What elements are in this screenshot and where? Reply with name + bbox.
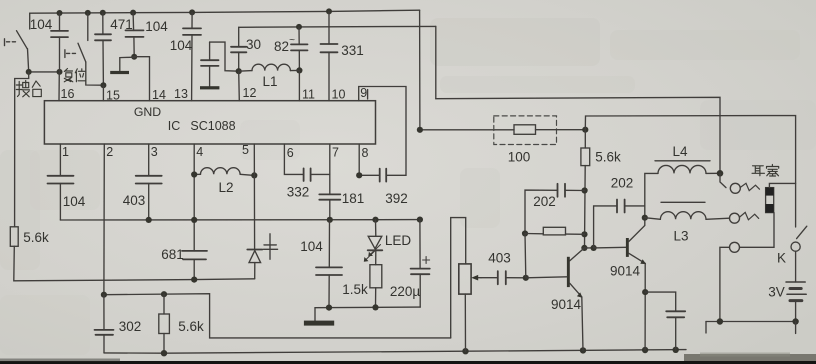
- svg-text:5.6k: 5.6k: [178, 319, 204, 334]
- capacitor C9 392 (pin8 node to pin9 loop): [380, 169, 387, 182]
- svg-text:181: 181: [342, 191, 365, 206]
- node: pin 11 junction: [296, 67, 302, 73]
- battery B1 3V: [786, 281, 805, 283]
- wire: x525 vertical to C18 node: [524, 234, 527, 278]
- horizontal bus under IC: [60, 219, 420, 221]
- svg-text:L4: L4: [672, 144, 688, 159]
- svg-text:15: 15: [106, 89, 120, 103]
- capacitor C2 471 (top rail to pin15): [102, 13, 104, 35]
- wire: pin 7 lead: [329, 144, 331, 194]
- switch S1 fixed contact with dashes: [4, 39, 6, 46]
- pin 9 label bracket: [367, 90, 369, 100]
- ground line end stubs: [705, 322, 707, 334]
- svg-text:331: 331: [341, 43, 364, 58]
- svg-text:9014: 9014: [551, 297, 582, 312]
- top supply rail: [30, 10, 420, 13]
- wire: R2 bottom to varactor rail (line A): [14, 246, 255, 280]
- resistor R5 5.6k (R4 node to Q1 collector): [584, 130, 586, 148]
- Q2 base wire: [594, 246, 626, 249]
- hanzi 耳 (er): [752, 166, 765, 176]
- capacitor C17 302 (pin2 node to bottom rail): [103, 295, 105, 330]
- svg-text:L2: L2: [218, 180, 233, 195]
- battery ground line: [706, 321, 798, 323]
- svg-text:403: 403: [488, 251, 511, 266]
- Q2 collector: [629, 218, 645, 242]
- wire: R4 node up and right to plug line: [585, 116, 795, 228]
- capacitor C7 82 (tank top to pin11 node): [298, 27, 300, 45]
- svg-text:5.6k: 5.6k: [23, 230, 49, 245]
- svg-text:202: 202: [611, 176, 634, 191]
- svg-text:7: 7: [332, 146, 339, 160]
- capacitor C18 403 (wiper to Q1 base): [481, 277, 498, 279]
- capacitor C12 332 (pin6 to pin7): [304, 168, 311, 181]
- transistor Q1 9014 base bar: [567, 257, 570, 287]
- wire: C5 top jog to pin12 node: [210, 42, 239, 71]
- svg-text:1.5k: 1.5k: [342, 282, 368, 297]
- svg-text:12: 12: [243, 86, 257, 100]
- wire: pin 15 lead: [102, 85, 104, 101]
- wire: K to battery: [795, 251, 797, 282]
- switch S2 bottom lead: [86, 62, 104, 85]
- wire: L4 feed from Q2 collector node: [645, 173, 658, 217]
- resistor R4 100: [514, 125, 536, 135]
- capacitor C6 30 (tank top to pin12 node): [238, 27, 240, 47]
- wire: battery minus to ground line: [795, 301, 797, 322]
- varactor side plate mark: [269, 234, 271, 259]
- svg-text:GND: GND: [134, 105, 161, 119]
- capacitor C21 (Q2 emitter bypass): [645, 292, 676, 311]
- capacitor C13 681 (pin4 line to varactor rail): [182, 251, 207, 260]
- capacitor C11 403 (pin3 to bus): [136, 176, 162, 184]
- svg-text:302: 302: [119, 319, 142, 334]
- LED arrows: [365, 245, 381, 261]
- wire: S1 node down-left to left rail: [15, 72, 29, 227]
- svg-text:K: K: [777, 251, 786, 266]
- capacitor C10 104 (pin1 to bus): [48, 176, 74, 184]
- L4 core bar: [655, 160, 710, 162]
- pin 9 top loop wire: [359, 87, 406, 176]
- wire: Q1 collector stub to Q2 base node: [584, 247, 593, 249]
- wire: pin 16 lead: [58, 72, 60, 101]
- svg-text:202: 202: [533, 194, 556, 209]
- wire: line B pin2 node to y338 line: [104, 294, 451, 338]
- svg-text:332: 332: [287, 185, 310, 200]
- jack contact 2 spring: [740, 212, 759, 219]
- capacitor C4 104 (top rail to pin13): [191, 12, 193, 28]
- varactor diode D1: [247, 249, 262, 251]
- wire: pin 5 lead down to varactor: [253, 144, 255, 249]
- resistor R6 (base bias): [525, 233, 543, 235]
- bottom ground rail: [104, 350, 686, 354]
- wire: AGC line from x419 node to dashed box: [420, 129, 514, 131]
- node A: S1 / pin16 junction wire: [29, 71, 60, 73]
- capacitor C14 181 (pin7 inline): [319, 194, 340, 199]
- wire: pin 11 lead: [298, 70, 300, 100]
- hanzi 位 (wei): [75, 69, 85, 82]
- wire: contact 3 to ground line: [720, 247, 730, 321]
- Q1 emitter with arrow: [570, 283, 582, 297]
- Q2 emitter with arrow: [629, 253, 645, 263]
- wire: pin 8 lead: [358, 144, 360, 175]
- capacitor C1 104 (top rail to pin16 node): [59, 13, 61, 31]
- svg-text:5.6k: 5.6k: [595, 150, 621, 165]
- inductor L4: [658, 165, 706, 173]
- svg-text:L3: L3: [673, 229, 688, 244]
- switch S2 (reset) top lead: [87, 13, 89, 41]
- svg-text:8: 8: [362, 146, 369, 160]
- switch S1 bottom lead: [28, 49, 29, 72]
- pot wiper arrow: [475, 277, 481, 279]
- inductor L1 (pin12 node to pin11 node): [239, 70, 252, 73]
- svg-text:1: 1: [62, 145, 69, 159]
- bottom dark smudge: [684, 354, 816, 362]
- switch S1 (search) top lead: [29, 13, 31, 29]
- wire: C3 node to pin 14: [134, 57, 149, 101]
- svg-text:13: 13: [174, 87, 188, 101]
- capacitor C16 220u electrolytic: [419, 220, 421, 269]
- svg-text:3: 3: [151, 145, 158, 159]
- svg-text:9014: 9014: [610, 264, 641, 279]
- wire: plug tip stub to switch line: [769, 183, 795, 187]
- inductor L2 (pin4 to pin5): [201, 168, 241, 175]
- node: pin15 junction: [100, 82, 106, 88]
- svg-text:5: 5: [242, 143, 249, 157]
- svg-text:681: 681: [161, 247, 184, 262]
- resistor R1 1.5k: [370, 265, 382, 288]
- ground bus (pin7 area): [315, 306, 420, 309]
- jack contact circle 2: [730, 213, 740, 223]
- inductor L3: [645, 218, 661, 220]
- svg-text:392: 392: [385, 191, 408, 206]
- svg-text:471: 471: [110, 17, 133, 32]
- wire: pin 6 lead: [284, 144, 303, 174]
- capacitor C20 202 (feedback Q2): [594, 206, 617, 248]
- jack contact circle 3: [730, 242, 740, 252]
- svg-text:104: 104: [300, 239, 323, 254]
- LED D2: [375, 220, 377, 236]
- wire: C3 node to ground G1: [120, 57, 134, 71]
- output line to earphone jack tip circle: [436, 97, 720, 173]
- svg-text:LED: LED: [385, 233, 412, 248]
- svg-text:3V: 3V: [768, 285, 785, 300]
- wire: top rail corner down right side: [419, 10, 421, 130]
- hanzi 塞 (sai): [767, 165, 779, 177]
- hanzi 搜 (sou): [16, 81, 29, 97]
- resistor R3 5.6k (line B to bottom rail): [163, 294, 165, 314]
- hanzi 复 (fu): [64, 69, 73, 82]
- ground G3: [304, 321, 334, 326]
- svg-text:30: 30: [246, 37, 261, 52]
- svg-text:104: 104: [30, 17, 53, 32]
- svg-text:220µ: 220µ: [390, 284, 421, 299]
- wire: tank bus corner down to output line: [435, 26, 437, 98]
- jack contact 1 spring: [741, 183, 760, 190]
- svg-text:9: 9: [360, 86, 367, 100]
- Q1 emitter to rail: [582, 297, 583, 351]
- ground G2: [200, 86, 219, 89]
- capacitor C8 331 (top rail to pin10): [328, 11, 330, 44]
- wire: ground bus to G3: [314, 308, 316, 321]
- capacitor C15 104 (pin7 bus to ground bus): [328, 220, 330, 268]
- svg-text:82: 82: [274, 39, 289, 54]
- svg-text:4: 4: [196, 145, 203, 159]
- svg-text:~: ~: [289, 35, 295, 46]
- wire: tank top bus (pin12/pin11 caps): [239, 25, 436, 28]
- C16 plus sign: [423, 257, 430, 264]
- svg-text:100: 100: [508, 150, 531, 165]
- wire: pin 3 lead: [148, 144, 150, 176]
- bottom black scan border: [0, 361, 816, 364]
- Q1 base wire: [526, 277, 567, 278]
- potentiometer RP body: [451, 218, 466, 338]
- svg-text:6: 6: [287, 146, 294, 160]
- resistor R2 5.6k (left): [10, 227, 18, 247]
- Q1 collector: [570, 248, 585, 261]
- svg-text:IC: IC: [168, 119, 181, 133]
- wire: pin 12 lead: [238, 71, 241, 101]
- dashed box around R4: [494, 116, 557, 145]
- svg-text:403: 403: [123, 193, 146, 208]
- svg-text:104: 104: [170, 38, 193, 53]
- capacitor C19 202 (feedback Q1): [565, 189, 585, 191]
- IC U1 SC1088 body: [44, 101, 375, 144]
- svg-text:11: 11: [302, 88, 315, 102]
- svg-text:10: 10: [332, 88, 346, 102]
- wire: pin 4 lead down through bus to C13: [193, 144, 195, 251]
- wire: pot bottom to rail: [464, 294, 466, 351]
- Q2 emitter down to rail: [644, 263, 646, 350]
- switch K blade: [797, 226, 807, 238]
- hanzi 台 (tai): [32, 81, 41, 97]
- svg-text:14: 14: [152, 88, 166, 102]
- wire: contact 3 to plug sleeve: [740, 213, 775, 248]
- node dots on top rail: [57, 8, 333, 16]
- svg-text:L1: L1: [262, 74, 277, 89]
- switch K contact circle: [791, 242, 800, 251]
- L3 core bar: [661, 201, 705, 203]
- ground G1: [110, 71, 129, 74]
- svg-text:16: 16: [61, 87, 75, 101]
- transistor Q2 9014 base bar: [626, 238, 629, 257]
- svg-text:104: 104: [145, 19, 168, 34]
- switch S1 blade: [17, 31, 28, 49]
- capacitor C3 104 (top rail to gnd / pin14): [132, 13, 135, 31]
- capacitor C5 (pin12 node to ground G2): [209, 42, 211, 60]
- wire: pin 2 lead down: [103, 144, 105, 295]
- switch S2 blade: [78, 43, 86, 62]
- svg-text:104: 104: [63, 194, 86, 209]
- wire: pin 1 lead: [59, 144, 61, 176]
- svg-text:2: 2: [106, 145, 113, 159]
- switch S2 fixed contact with dashes: [64, 50, 66, 58]
- earphone plug body: [766, 188, 774, 213]
- svg-text:SC1088: SC1088: [190, 119, 235, 133]
- jack contact circle 1: [720, 173, 726, 187]
- node: pin 12 junction: [236, 24, 302, 74]
